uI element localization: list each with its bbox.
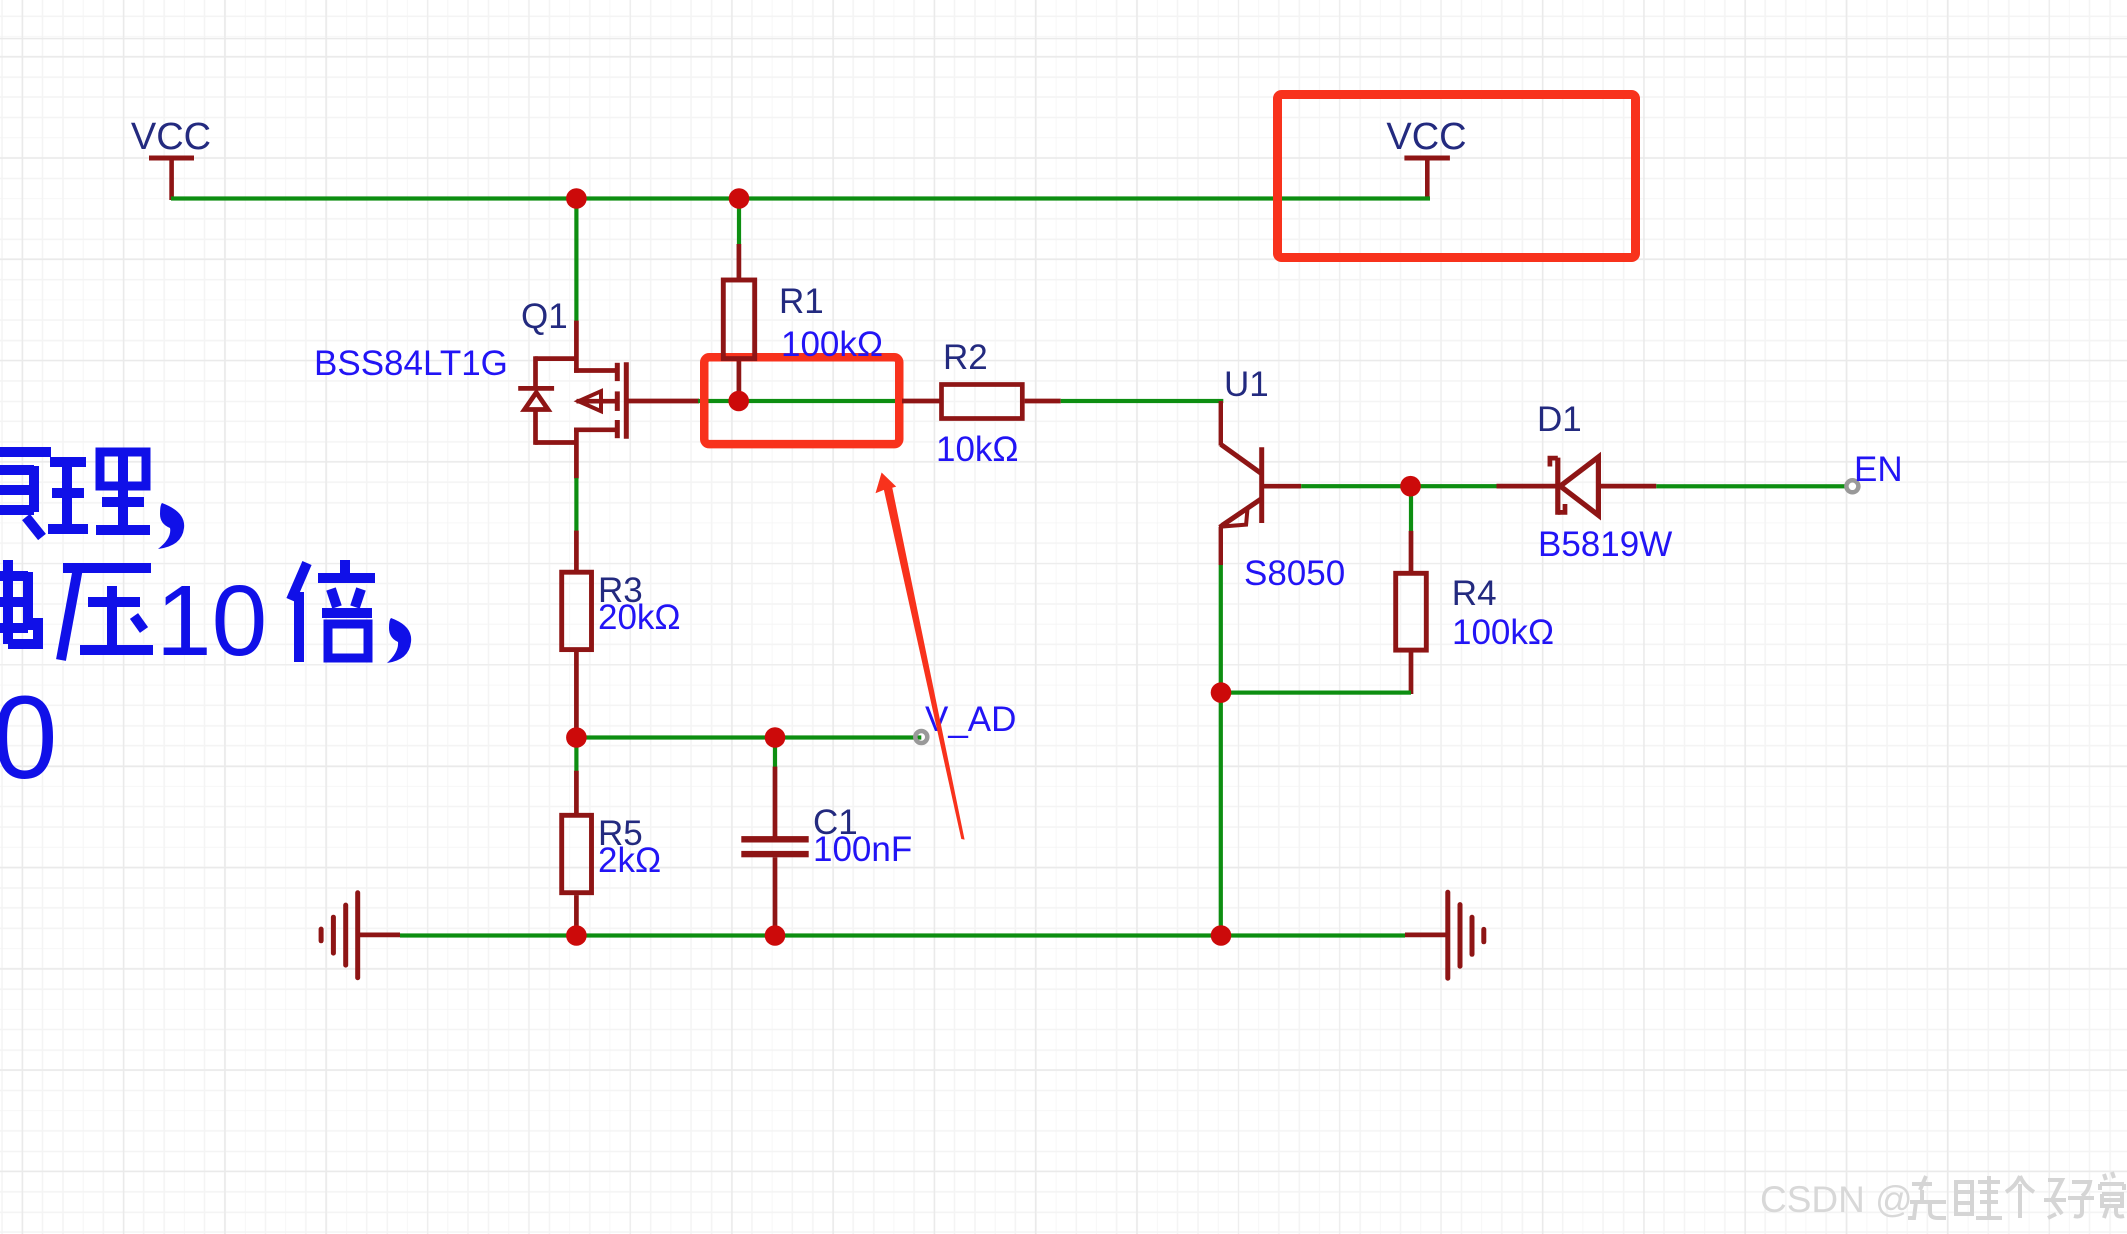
value 100nF bbox=[813, 830, 912, 869]
annotation text line 2 partial 电 bbox=[0, 560, 38, 644]
designator R2 bbox=[943, 338, 988, 377]
wire R3 bottom / R5 top vertical bbox=[574, 738, 578, 772]
svg-text:100kΩ: 100kΩ bbox=[1452, 613, 1554, 652]
base bar bbox=[1259, 447, 1264, 523]
wire V_AD node horizontal bbox=[576, 735, 921, 739]
个 bbox=[2006, 1176, 2034, 1218]
value BSS84LT1G bbox=[314, 344, 508, 383]
gate bar bbox=[624, 362, 629, 439]
watermark CSDN bbox=[1760, 1179, 1913, 1220]
value 100k&#937; bbox=[1452, 613, 1554, 652]
svg-text:R2: R2 bbox=[943, 338, 988, 377]
svg-text:Q1: Q1 bbox=[521, 297, 568, 336]
schottky top hook bbox=[1550, 458, 1558, 466]
designator R5 bbox=[598, 814, 643, 853]
resistor R4 bbox=[1396, 531, 1427, 694]
wire gate net (Q1 gate to R2) bbox=[698, 399, 904, 403]
collector pin bbox=[1219, 401, 1223, 446]
annotation text 压 bbox=[61, 568, 153, 660]
cathode lead bbox=[1497, 484, 1557, 489]
annotation comma 1 bbox=[158, 503, 184, 549]
value 2k&#937; bbox=[598, 841, 661, 880]
svg-text:0: 0 bbox=[0, 672, 58, 804]
svg-text:10kΩ: 10kΩ bbox=[936, 430, 1019, 469]
net label V_AD bbox=[925, 700, 1016, 739]
resistor R2 bbox=[902, 385, 1061, 419]
svg-text:CSDN @: CSDN @ bbox=[1760, 1179, 1913, 1220]
annotation text 10 bbox=[156, 565, 267, 677]
wire VCC top rail bbox=[171, 196, 1430, 200]
resistor R5 bbox=[562, 771, 592, 936]
body diode triangle bbox=[525, 393, 549, 410]
anode triangle bbox=[1560, 457, 1598, 515]
designator Q1 bbox=[521, 297, 568, 336]
wire Q1 drain to R3 (green) bbox=[574, 478, 578, 531]
collector diagonal bbox=[1221, 444, 1262, 473]
wire ground rail bbox=[400, 933, 1405, 937]
annotation arrow (red) bbox=[876, 473, 965, 840]
annotation box 1 (red rectangle around right VCC) bbox=[1278, 95, 1636, 258]
wire R4 top drop bbox=[1409, 486, 1413, 531]
cathode bar bbox=[1555, 458, 1560, 515]
wire D1 anode to EN pin bbox=[1656, 484, 1845, 488]
junction gate wire / R1 bottom bbox=[728, 391, 749, 412]
annotation text 倍 bbox=[291, 560, 375, 662]
ground symbol (right) bbox=[1405, 892, 1484, 978]
先 bbox=[1908, 1176, 1946, 1218]
svg-text:R1: R1 bbox=[779, 282, 824, 321]
schottky bottom hook bbox=[1558, 504, 1565, 512]
schottky diode D1 B5819W bbox=[1497, 457, 1657, 515]
pin endpoint EN bbox=[1846, 480, 1858, 492]
transistor Q1 BSS84LT1G (PMOS with body diode) bbox=[518, 321, 699, 479]
wire U1 emitter down to ground rail bbox=[1219, 565, 1223, 936]
svg-text:D1: D1 bbox=[1537, 400, 1582, 439]
body diode cathode bar bbox=[518, 386, 554, 391]
annotation text 理 bbox=[48, 452, 150, 530]
capacitor C1 bbox=[741, 767, 808, 936]
resistor R1 bbox=[723, 244, 754, 400]
junction ground / R5 bbox=[566, 925, 587, 946]
emitter pin bbox=[1219, 527, 1223, 565]
value 20k&#937; bbox=[598, 598, 681, 637]
source pin from top bbox=[574, 321, 579, 373]
svg-text:BSS84LT1G: BSS84LT1G bbox=[314, 344, 508, 383]
svg-text:100kΩ: 100kΩ bbox=[781, 325, 883, 364]
wire base net (U1 base to D1) bbox=[1301, 484, 1496, 488]
ground symbol (left) bbox=[321, 893, 400, 978]
power symbol VCC (left) bbox=[131, 116, 211, 200]
wire Q1 source drop (green) bbox=[574, 199, 578, 322]
svg-text:VCC: VCC bbox=[131, 116, 211, 158]
bottom stub (drain) bbox=[574, 427, 616, 432]
watermark chinese glyphs bbox=[1908, 1172, 2124, 1218]
anode lead bbox=[1598, 484, 1656, 489]
junction ground / C1 bbox=[765, 925, 786, 946]
pin endpoint V_AD bbox=[915, 731, 927, 743]
junction VCC rail / R1 bbox=[729, 188, 750, 209]
svg-text:S8050: S8050 bbox=[1244, 554, 1345, 593]
wire R2 to U1 collector bbox=[1061, 399, 1224, 403]
svg-text:EN: EN bbox=[1854, 450, 1903, 489]
junction base net / R4 top bbox=[1400, 476, 1421, 497]
svg-text:R4: R4 bbox=[1452, 574, 1497, 613]
好 bbox=[2044, 1180, 2094, 1218]
value B5819W bbox=[1538, 525, 1672, 564]
body arrow bbox=[579, 391, 602, 411]
value 100k&#937; bbox=[781, 325, 883, 364]
transistor U1 S8050 bbox=[1220, 401, 1302, 565]
designator R4 bbox=[1452, 574, 1497, 613]
top stub (source) bbox=[574, 368, 616, 373]
junction V_AD / R3-R5 bbox=[566, 727, 587, 748]
觉 bbox=[2100, 1172, 2124, 1218]
svg-text:U1: U1 bbox=[1224, 365, 1269, 404]
睡 bbox=[1956, 1176, 2002, 1218]
channel bar segments bbox=[615, 363, 620, 381]
wire R1 top drop (green) bbox=[737, 199, 741, 245]
wire C1 top drop bbox=[773, 738, 777, 768]
middle stub (body) bbox=[577, 399, 616, 404]
junction emitter line / R4 bottom bbox=[1211, 682, 1232, 703]
net label EN bbox=[1854, 450, 1903, 489]
junction V_AD / C1 bbox=[765, 727, 786, 748]
body-diode branch: top horiz, left vert, bottom horiz bbox=[535, 356, 577, 361]
wire R4 bottom to emitter line bbox=[1221, 691, 1411, 695]
annotation text line 1 (原理，) partial 原 bbox=[0, 452, 51, 537]
designator U1 bbox=[1224, 365, 1269, 404]
annotation box 2 (red rectangle on gate wire) bbox=[704, 357, 899, 444]
gate lead bbox=[628, 399, 699, 404]
emitter diagonal bbox=[1222, 499, 1261, 526]
base lead bbox=[1263, 484, 1301, 489]
resistor R3 bbox=[562, 531, 592, 737]
svg-text:B5819W: B5819W bbox=[1538, 525, 1672, 564]
junction ground / emitter line bbox=[1211, 925, 1232, 946]
value 10k&#937; bbox=[936, 430, 1019, 469]
svg-text:2kΩ: 2kΩ bbox=[598, 841, 661, 880]
annotation comma 2 bbox=[387, 618, 411, 663]
designator R3 bbox=[598, 571, 643, 610]
emitter arrow bbox=[1220, 509, 1248, 527]
value S8050 bbox=[1244, 554, 1345, 593]
designator R1 bbox=[779, 282, 824, 321]
annotation text line 3 (0) bbox=[0, 672, 58, 804]
svg-text:10: 10 bbox=[156, 565, 267, 677]
designator C1 bbox=[813, 803, 858, 842]
power symbol VCC (right, inside annotation box) bbox=[1386, 116, 1466, 200]
junction VCC rail / Q1 source bbox=[566, 188, 587, 209]
designator D1 bbox=[1537, 400, 1582, 439]
svg-text:VCC: VCC bbox=[1386, 116, 1466, 158]
svg-text:100nF: 100nF bbox=[813, 830, 912, 869]
drain pin down bbox=[574, 428, 579, 479]
svg-text:20kΩ: 20kΩ bbox=[598, 598, 681, 637]
